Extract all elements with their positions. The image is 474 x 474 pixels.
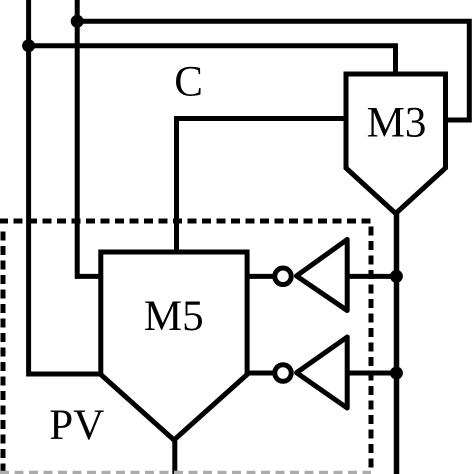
svg-text:M5: M5 <box>144 293 204 340</box>
svg-text:M3: M3 <box>367 100 427 147</box>
svg-text:PV: PV <box>49 402 104 449</box>
svg-text:C: C <box>174 59 203 106</box>
